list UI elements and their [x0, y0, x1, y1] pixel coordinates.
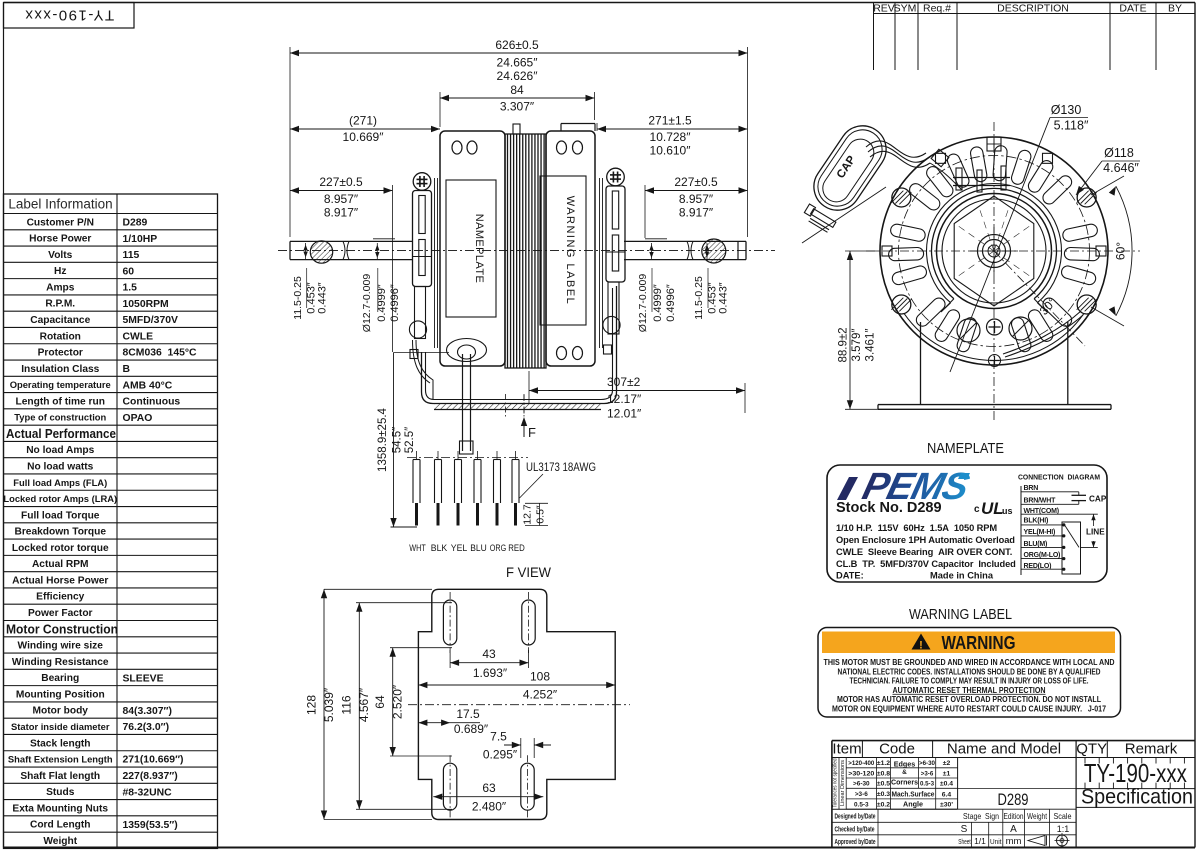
stage sign row — [958, 808, 1077, 810]
through bolt lines right — [599, 178, 601, 348]
svg-text:Designed by/Date: Designed by/Date — [835, 812, 876, 821]
svg-text:ORG(M-LO): ORG(M-LO) — [1024, 552, 1061, 559]
Specification cell — [1076, 788, 1195, 790]
dimension 88.9±2 height — [845, 250, 878, 252]
rear view horizontal centerline — [866, 250, 1140, 252]
left shaft flat hatched — [310, 241, 332, 263]
svg-text:8CM036 145°C: 8CM036 145°C — [123, 348, 198, 359]
svg-text:63: 63 — [482, 781, 496, 795]
capacitor CAP capsule — [805, 117, 895, 220]
svg-text:WHT: WHT — [409, 543, 426, 554]
svg-text:&: & — [902, 769, 907, 776]
F view arrow — [523, 419, 525, 437]
svg-text:Checked by/Date: Checked by/Date — [835, 825, 875, 834]
svg-text:>3-6: >3-6 — [921, 770, 934, 777]
dimension 84 body width — [439, 92, 441, 127]
power cord — [462, 354, 464, 451]
svg-text:60: 60 — [123, 266, 135, 277]
mounting bracket screw — [413, 173, 431, 191]
LINE arrows in diagram — [1093, 514, 1095, 526]
svg-text:84(3.307″): 84(3.307″) — [123, 706, 172, 717]
svg-text:Angle: Angle — [903, 800, 923, 809]
svg-text:Scale: Scale — [1054, 812, 1072, 821]
svg-text:Actual RPM: Actual RPM — [32, 559, 89, 570]
svg-text:Ø12.7-0.009: Ø12.7-0.009 — [361, 274, 373, 333]
dimension 227±0.5 left — [392, 185, 394, 352]
svg-text:(271): (271) — [349, 114, 377, 128]
svg-text:Tolerances not specified: Tolerances not specified — [833, 759, 839, 808]
svg-text:Edges: Edges — [894, 760, 916, 769]
f-view dim 7.5 — [520, 738, 522, 758]
svg-text:Insulation Class: Insulation Class — [21, 364, 99, 375]
svg-text:±0.8: ±0.8 — [877, 770, 890, 777]
svg-text:Amps: Amps — [46, 282, 75, 293]
capacitor mounting bolt — [802, 204, 837, 233]
svg-text:>6-30: >6-30 — [919, 760, 936, 767]
svg-text:0.4999″: 0.4999″ — [652, 284, 664, 322]
svg-text:0.443″: 0.443″ — [718, 282, 730, 314]
svg-text:Exta Mounting Nuts: Exta Mounting Nuts — [12, 803, 108, 814]
svg-text:ORG: ORG — [490, 543, 507, 554]
svg-text:±30': ±30' — [940, 802, 953, 809]
svg-text:Code: Code — [879, 741, 915, 758]
svg-text:Shaft Flat length: Shaft Flat length — [20, 771, 100, 782]
svg-text:12.7: 12.7 — [522, 504, 534, 525]
svg-text:TY-190-xxx: TY-190-xxx — [24, 7, 114, 24]
svg-text:Full load Amps (FLA): Full load Amps (FLA) — [13, 477, 107, 488]
right endbell top step tab — [561, 123, 595, 125]
svg-text:11.5-0.25: 11.5-0.25 — [693, 276, 705, 320]
svg-text:Full load Torque: Full load Torque — [21, 510, 100, 521]
svg-text:mm: mm — [1006, 836, 1022, 847]
dimension Ø12.7 left shaft — [376, 243, 378, 260]
designer rows — [832, 808, 958, 810]
mount screws on bolt circle — [892, 188, 911, 207]
f-view dim 108 — [418, 684, 615, 686]
svg-text:Edition: Edition — [1004, 812, 1024, 821]
svg-text:DATE:: DATE: — [836, 571, 864, 581]
third angle projection symbol — [1028, 836, 1045, 846]
svg-text:108: 108 — [530, 670, 550, 684]
f-view dim 17.5 — [418, 722, 480, 724]
svg-text:Rotation: Rotation — [40, 331, 81, 342]
svg-text:1050RPM: 1050RPM — [123, 299, 169, 310]
svg-text:Hz: Hz — [54, 266, 66, 277]
svg-text:Motor Construction: Motor Construction — [6, 622, 118, 637]
svg-text:YEL: YEL — [451, 543, 468, 554]
lead wire 5 — [496, 451, 498, 460]
svg-text:MOTOR ON EQUIPMENT WHERE AUTO: MOTOR ON EQUIPMENT WHERE AUTO RESTART CO… — [832, 705, 1106, 714]
f-view base plate outline — [418, 589, 615, 819]
svg-text:Winding Resistance: Winding Resistance — [12, 657, 109, 668]
svg-text:Volts: Volts — [48, 250, 72, 261]
f-view slot top-right — [522, 600, 535, 645]
svg-text:Length of time run: Length of time run — [16, 396, 105, 407]
svg-text:Unit: Unit — [990, 839, 1002, 846]
dimension 11.5 right shaft flat — [706, 243, 708, 259]
title box TY-190-xxx top-left (rotated 180) — [4, 3, 135, 29]
revision table header — [873, 3, 875, 71]
svg-text:CWLE Sleeve Bearing AIR OVER: CWLE Sleeve Bearing AIR OVER CONT. — [836, 547, 1012, 557]
svg-text:us: us — [1002, 506, 1013, 516]
lead wire 3 — [457, 451, 459, 460]
cord exit boss oval — [447, 339, 487, 362]
svg-text:84: 84 — [510, 83, 524, 97]
svg-text:6.4: 6.4 — [942, 792, 952, 799]
f-view dim 63 — [433, 796, 543, 798]
svg-text:Efficiency: Efficiency — [36, 592, 84, 603]
svg-text:8.957″: 8.957″ — [679, 192, 714, 206]
svg-text:±0.5: ±0.5 — [877, 781, 890, 788]
svg-text:1:1: 1:1 — [1057, 824, 1070, 834]
svg-text:Mounting Position: Mounting Position — [16, 689, 105, 700]
svg-text:1/1: 1/1 — [974, 836, 986, 846]
svg-text:TY-190-xxx: TY-190-xxx — [1084, 758, 1187, 788]
svg-text:116: 116 — [340, 695, 354, 714]
ventilation slots ring — [1060, 265, 1097, 287]
right shaft flat hatched — [702, 239, 726, 263]
svg-text:LINE: LINE — [1086, 528, 1105, 537]
svg-text:CAP: CAP — [835, 154, 859, 181]
svg-text:2.520″: 2.520″ — [391, 684, 405, 719]
rear view vertical centerline — [993, 122, 995, 420]
svg-text:DATE: DATE — [1119, 3, 1146, 15]
svg-text:QTY: QTY — [1076, 741, 1107, 758]
svg-text:Name and Model: Name and Model — [947, 741, 1061, 758]
label information table — [4, 194, 218, 848]
svg-text:Locked rotor torque: Locked rotor torque — [12, 543, 109, 554]
svg-text:24.626″: 24.626″ — [497, 69, 539, 83]
svg-text:1358.9±25.4: 1358.9±25.4 — [377, 407, 389, 471]
capacitor wires to motor — [868, 146, 928, 162]
svg-text:0.4996″: 0.4996″ — [389, 284, 401, 322]
base centerline ticks — [505, 394, 507, 418]
svg-text:0.4996″: 0.4996″ — [665, 284, 677, 322]
svg-text:52.5″: 52.5″ — [404, 427, 416, 453]
svg-text:Winding wire size: Winding wire size — [18, 641, 104, 652]
svg-text:0.443″: 0.443″ — [317, 282, 329, 314]
stator top tab — [513, 124, 520, 134]
side view motor body left endbell — [440, 131, 505, 366]
svg-text:Corners: Corners — [891, 778, 918, 787]
svg-text:Approved by/Date: Approved by/Date — [835, 837, 876, 846]
wire clip square on shell — [931, 149, 949, 167]
f-view horizontal centerline — [408, 704, 630, 706]
wire tail into shell — [930, 163, 962, 190]
bracket lower arm — [608, 282, 619, 334]
svg-text:NAMEPLATE: NAMEPLATE — [473, 214, 485, 283]
svg-text:Stator inside diameter: Stator inside diameter — [11, 721, 110, 732]
nameplate sticker box — [827, 465, 1107, 582]
svg-text:227±0.5: 227±0.5 — [674, 175, 718, 189]
svg-text:43: 43 — [482, 647, 496, 661]
svg-text:No load Amps: No load Amps — [26, 445, 94, 456]
svg-text:±0.3: ±0.3 — [877, 791, 890, 798]
svg-text:±1.2: ±1.2 — [877, 760, 890, 767]
f-view dim 64 vertical — [390, 647, 452, 649]
bottom phillips screws — [987, 319, 1003, 335]
svg-text:Motor body: Motor body — [33, 706, 89, 717]
svg-text:Capacitance: Capacitance — [30, 315, 90, 326]
svg-text:CAP: CAP — [1089, 495, 1107, 504]
svg-text:0.5″: 0.5″ — [535, 505, 547, 524]
svg-text:307±2: 307±2 — [607, 375, 641, 389]
svg-text:24.665″: 24.665″ — [497, 56, 539, 70]
svg-text:60°: 60° — [1114, 242, 1128, 260]
svg-text:No load watts: No load watts — [27, 462, 94, 473]
svg-text:#8-32UNC: #8-32UNC — [123, 787, 173, 798]
svg-text:Weight: Weight — [1027, 812, 1048, 821]
dimension 626±0.5 overall length — [289, 47, 291, 237]
svg-text:4.646″: 4.646″ — [1103, 161, 1139, 175]
svg-text:±1: ±1 — [943, 770, 951, 777]
svg-text:0.689″: 0.689″ — [454, 722, 489, 736]
through bolt lines left — [434, 178, 436, 348]
svg-text:OPAO: OPAO — [123, 413, 153, 424]
svg-text:BLU: BLU — [470, 543, 487, 554]
svg-text:Label Information: Label Information — [8, 197, 112, 212]
svg-text:TECHNICIAN. FAILURE TO COMPLY: TECHNICIAN. FAILURE TO COMPLY MAY RESULT… — [850, 677, 1089, 686]
tolerance table — [846, 767, 957, 769]
30 degree dash radial — [994, 251, 1085, 346]
svg-text:Horse Power: Horse Power — [29, 234, 91, 245]
svg-text:UL3173 18AWG: UL3173 18AWG — [526, 462, 596, 474]
mounting bracket bar — [606, 186, 625, 282]
svg-text:Req.#: Req.# — [923, 3, 951, 15]
lead wire 2 — [437, 451, 439, 460]
top bracket bar — [953, 177, 1010, 179]
dimension 271±1.5 right shaft — [596, 123, 598, 131]
f-view slot bottom-left — [443, 763, 456, 810]
shell seam arc bottom — [904, 314, 1083, 361]
svg-text:D289: D289 — [998, 790, 1029, 809]
left motor shaft — [290, 240, 412, 242]
svg-text:1359(53.5″): 1359(53.5″) — [123, 820, 178, 831]
svg-text:F VIEW: F VIEW — [506, 564, 552, 580]
svg-text:4.252″: 4.252″ — [523, 688, 558, 702]
rear view hexagon — [954, 196, 1034, 306]
capacitor symbol in diagram — [1078, 492, 1080, 496]
svg-text:1/10 H.P. 115V 60Hz 1.5A 1: 1/10 H.P. 115V 60Hz 1.5A 1050 RPM — [836, 523, 997, 533]
svg-text:Stock No. D289: Stock No. D289 — [836, 500, 942, 516]
svg-text:12.01″: 12.01″ — [607, 407, 642, 421]
ground wire from bottom-right screw — [1003, 311, 1081, 354]
f-view dim 116 vertical — [356, 602, 452, 604]
svg-text:AUTOMATIC RESET THERMAL PROTEC: AUTOMATIC RESET THERMAL PROTECTION — [893, 686, 1046, 695]
svg-text:>120-400: >120-400 — [848, 760, 874, 767]
svg-text:Item: Item — [832, 741, 861, 758]
svg-text:5.039″: 5.039″ — [322, 687, 336, 722]
svg-text:Stack length: Stack length — [30, 738, 91, 749]
svg-text:BY: BY — [1168, 3, 1182, 15]
svg-text:>3-6: >3-6 — [855, 791, 868, 798]
f-view slot top-left — [443, 600, 456, 645]
svg-text:8.917″: 8.917″ — [324, 206, 359, 220]
svg-text:±0.2: ±0.2 — [877, 802, 890, 809]
dimension 1358.9±25.4 cord length — [394, 352, 450, 354]
svg-text:WARNING: WARNING — [942, 632, 1016, 653]
bottom vent ovals with slash — [957, 319, 980, 342]
right shaft break mark — [687, 241, 689, 259]
svg-text:Operating temperature: Operating temperature — [10, 379, 111, 390]
svg-text:76.2(3.0″): 76.2(3.0″) — [123, 722, 170, 733]
svg-text:Shaft Extension Length: Shaft Extension Length — [8, 754, 113, 765]
svg-text:BLK: BLK — [431, 543, 448, 554]
svg-text:12.17″: 12.17″ — [607, 392, 642, 406]
base cradle left wall and cord guide — [422, 286, 617, 404]
svg-text:0.5-3: 0.5-3 — [920, 781, 935, 788]
svg-text:Actual Horse Power: Actual Horse Power — [12, 575, 108, 586]
svg-text:128: 128 — [305, 695, 319, 715]
svg-text:0.4999″: 0.4999″ — [376, 284, 388, 322]
svg-text:±2: ±2 — [943, 760, 951, 767]
svg-text:11.5-0.25: 11.5-0.25 — [292, 276, 304, 320]
rear base legs — [920, 322, 922, 405]
svg-text:BLK(HI): BLK(HI) — [1024, 518, 1049, 525]
clip squares on bolt circle — [987, 137, 1001, 151]
mounting bracket bar — [413, 191, 432, 287]
base hatched strip — [434, 404, 601, 410]
svg-text:115: 115 — [123, 250, 140, 261]
lead wire 1 — [416, 451, 418, 460]
right endbell mounting ovals — [557, 141, 567, 154]
warning label rect on motor — [540, 176, 586, 325]
svg-text:DESCRIPTION: DESCRIPTION — [997, 3, 1069, 15]
svg-text:SYM.: SYM. — [894, 3, 920, 15]
svg-text:8.917″: 8.917″ — [679, 206, 714, 220]
lead wire centerline — [407, 457, 528, 459]
svg-text:Bearing: Bearing — [41, 673, 79, 684]
svg-text:Breakdown Torque: Breakdown Torque — [14, 527, 106, 538]
svg-text:F: F — [528, 425, 536, 440]
nameplate label rect on motor — [446, 180, 496, 317]
svg-text:Ø118: Ø118 — [1104, 146, 1134, 160]
PEMS logo — [858, 466, 973, 508]
svg-text:1/10HP: 1/10HP — [123, 234, 158, 245]
svg-text:Power Factor: Power Factor — [28, 608, 93, 619]
svg-text:NATIONAL ELECTRIC CODES. INSTA: NATIONAL ELECTRIC CODES. INSTALLATIONS S… — [838, 667, 1101, 676]
dimension 227±0.5 right — [644, 185, 646, 238]
svg-text:88.9±2: 88.9±2 — [838, 327, 850, 362]
svg-text:227±0.5: 227±0.5 — [319, 175, 363, 189]
svg-text:Linear Dimensions: Linear Dimensions — [840, 760, 846, 806]
rear view bolt dash circle — [899, 156, 1090, 347]
svg-text:RED: RED — [508, 543, 525, 554]
svg-text:Ø12.7-0.009: Ø12.7-0.009 — [637, 274, 649, 333]
svg-text:NAMEPLATE: NAMEPLATE — [927, 440, 1004, 457]
svg-text:3.461″: 3.461″ — [865, 329, 877, 362]
dimension Ø12.7 right shaft — [651, 243, 653, 260]
svg-text:CWLE: CWLE — [123, 331, 154, 342]
wire terminal dim 12.7 / 0.5in — [525, 502, 548, 504]
svg-text:Locked rotor Amps (LRA): Locked rotor Amps (LRA) — [3, 493, 117, 504]
svg-text:THIS MOTOR MUST BE GROUNDED AN: THIS MOTOR MUST BE GROUNDED AND WIRED IN… — [824, 658, 1115, 667]
svg-text:64: 64 — [373, 695, 387, 709]
svg-text:Continuous: Continuous — [123, 397, 181, 408]
f-view dim 128 vertical — [324, 588, 432, 590]
svg-text:Type of construction: Type of construction — [14, 412, 106, 423]
f-view slot bottom-right — [521, 763, 534, 810]
svg-text:Studs: Studs — [46, 787, 75, 798]
svg-text:4.567″: 4.567″ — [357, 687, 371, 722]
svg-text:271±1.5: 271±1.5 — [648, 114, 692, 128]
svg-text:S: S — [961, 824, 968, 835]
svg-text:0.295″: 0.295″ — [483, 748, 518, 762]
svg-text:WARNING LABEL: WARNING LABEL — [564, 196, 576, 306]
warning triangle icon — [912, 634, 931, 650]
svg-text:Customer P/N: Customer P/N — [27, 217, 94, 228]
svg-text:54.5″: 54.5″ — [392, 427, 404, 453]
svg-text:REV: REV — [873, 3, 895, 15]
svg-text:8.957″: 8.957″ — [324, 192, 359, 206]
svg-text:3.307″: 3.307″ — [500, 100, 535, 114]
svg-text:Weight: Weight — [43, 836, 77, 847]
svg-text:BRN: BRN — [1024, 485, 1039, 492]
right motor shaft — [624, 240, 746, 242]
svg-text:±0.4: ±0.4 — [940, 781, 953, 788]
svg-text:271(10.669″): 271(10.669″) — [123, 755, 184, 766]
svg-text:2.480″: 2.480″ — [472, 800, 507, 814]
svg-text:WARNING LABEL: WARNING LABEL — [909, 606, 1012, 623]
svg-text:SLEEVE: SLEEVE — [123, 673, 164, 684]
svg-text:CL.B TP. 5MFD/370V Capacitor: CL.B TP. 5MFD/370V Capacitor Included — [836, 559, 1016, 569]
dimension (271) left shaft — [290, 128, 440, 130]
svg-text:Made in China: Made in China — [930, 571, 994, 581]
svg-text:R.P.M.: R.P.M. — [45, 299, 75, 310]
right shaft end cap — [737, 241, 739, 259]
svg-text:30°: 30° — [1037, 295, 1060, 318]
svg-text:c: c — [974, 504, 980, 515]
f-view dim 43 — [449, 650, 451, 668]
svg-text:Sheet: Sheet — [958, 839, 971, 846]
svg-text:1.693″: 1.693″ — [473, 666, 508, 680]
leader diagonal stud line — [802, 187, 886, 243]
title block frame — [832, 740, 1195, 742]
svg-text:>30-120: >30-120 — [848, 770, 874, 777]
bracket lower arm — [415, 287, 426, 339]
svg-text:17.5: 17.5 — [456, 707, 480, 721]
svg-text:10.728″: 10.728″ — [650, 130, 692, 144]
svg-text:Stage Sign: Stage Sign — [963, 812, 999, 821]
svg-text:3.579″: 3.579″ — [851, 329, 863, 362]
svg-text:5.118″: 5.118″ — [1054, 119, 1089, 133]
svg-text:Open Enclosure 1PH Automatic O: Open Enclosure 1PH Automatic Overload — [836, 535, 1015, 545]
svg-text:Actual Performance: Actual Performance — [6, 426, 116, 441]
lead wire 4 — [477, 451, 479, 460]
svg-text:Ø130: Ø130 — [1051, 103, 1082, 117]
lead wire 6 — [515, 451, 517, 460]
svg-text:7.5: 7.5 — [490, 730, 507, 744]
svg-text:227(8.937″): 227(8.937″) — [123, 771, 178, 782]
D289 model cell — [958, 788, 1077, 790]
svg-text:626±0.5: 626±0.5 — [495, 38, 539, 52]
rear view center hub circles — [978, 235, 1011, 268]
left endbell mounting ovals — [452, 141, 462, 154]
svg-text:Remark: Remark — [1125, 741, 1178, 758]
warning orange band — [822, 632, 1115, 654]
svg-text:D289: D289 — [123, 218, 148, 229]
svg-text:>6-30: >6-30 — [853, 781, 870, 788]
rear view radial dash rays — [994, 251, 1033, 279]
svg-text:1.5: 1.5 — [123, 283, 138, 294]
svg-text:0.5-3: 0.5-3 — [854, 802, 869, 809]
svg-text:Mach.Surface: Mach.Surface — [892, 790, 935, 799]
switch box in diagram — [1062, 522, 1081, 574]
svg-text:!: ! — [919, 640, 923, 652]
svg-text:Cord Length: Cord Length — [30, 820, 91, 831]
left bracket wire to base — [416, 340, 433, 399]
svg-text:5MFD/370V: 5MFD/370V — [123, 315, 179, 326]
